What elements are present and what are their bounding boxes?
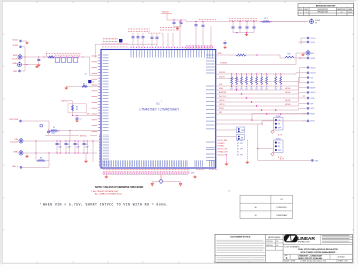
wire vertical x25	[24, 47, 26, 71]
IC U1 LTM4676 uModule outline	[101, 50, 216, 169]
label at x205-214 top	[198, 19, 201, 21]
svg-text:SHEET 1 OF 1: SHEET 1 OF 1	[338, 261, 348, 263]
address text block	[320, 234, 322, 244]
title block frame and approvals	[215, 234, 353, 262]
wire corner at U1 top-left	[95, 44, 157, 58]
svg-text:GND: GND	[13, 151, 18, 153]
svg-text:4B: 4B	[251, 86, 253, 88]
wire stubs x163-173 above U1	[162, 33, 164, 47]
junction top center	[173, 19, 174, 20]
svg-text:4B: 4B	[241, 86, 243, 88]
svg-text:SYNC: SYNC	[219, 108, 225, 110]
labels left of U2 text block	[102, 38, 105, 40]
svg-text:4.5V-26.5V: 4.5V-26.5V	[10, 142, 19, 144]
svg-text:F1: F1	[53, 127, 55, 129]
jumper JP2 RUN1	[274, 140, 284, 153]
svg-text:REV: REV	[305, 9, 308, 11]
svg-text:GND: GND	[13, 63, 18, 65]
wire pin y130 cluster	[216, 129, 236, 131]
svg-text:4B: 4B	[275, 86, 277, 88]
svg-text:4B: 4B	[246, 86, 248, 88]
capacitors C23-C26 top right	[232, 22, 234, 27]
ground arrow under C32	[38, 63, 41, 66]
svg-text:4B 100k: 4B 100k	[285, 100, 291, 102]
svg-text:RUN1: RUN1	[276, 138, 281, 140]
turret small VDD33 top-left	[19, 46, 21, 48]
svg-text:NC_OPT: NC_OPT	[237, 149, 243, 151]
wire RUN0 to JP1	[216, 119, 274, 121]
turret E7 small	[18, 70, 20, 72]
svg-text:NOTE: UNLESS OTHERWISE SPECIFI: NOTE: UNLESS OTHERWISE SPECIFIED	[95, 186, 143, 189]
wire F1 to VIN rail	[58, 130, 101, 132]
svg-text:FSW: FSW	[241, 130, 245, 132]
wire caps bottom join	[174, 26, 181, 28]
svg-text:R9: R9	[83, 84, 85, 86]
ground arrow x86	[85, 160, 88, 163]
capacitor C22 at x203	[202, 27, 204, 48]
ground arrow top right	[245, 33, 248, 36]
svg-text:WP: WP	[311, 103, 314, 105]
capacitor C20	[173, 22, 176, 23]
svg-text:B_TP: B_TP	[280, 159, 284, 161]
wire VIN rail	[23, 140, 101, 142]
wire stub x180 to IC	[179, 22, 181, 47]
junction dots GND rail	[35, 152, 36, 153]
svg-text:PCB DES.: PCB DES.	[267, 241, 274, 243]
svg-text:FB1: FB1	[288, 54, 291, 56]
wire VDD bus jogs	[296, 73, 307, 74]
jumper JP1 RUN0	[274, 118, 284, 131]
flag marker on PVIN wire	[40, 125, 42, 127]
svg-text:PVIN_SNS: PVIN_SNS	[9, 119, 19, 121]
svg-text:VDD25: VDD25	[311, 67, 316, 69]
jumper JP4 small	[237, 135, 245, 141]
svg-text:VDD25: VDD25	[13, 39, 19, 41]
wire riser x93	[92, 141, 94, 160]
turret column feed wires	[302, 113, 307, 115]
svg-text:B_TP: B_TP	[278, 134, 282, 136]
component U2 navy square	[119, 39, 122, 42]
turret small VDD25 top-left	[19, 40, 21, 42]
svg-text:VDD33: VDD33	[311, 73, 316, 75]
dashed vertical no-connect x247	[246, 140, 248, 160]
svg-text:PH: PH	[241, 137, 243, 139]
Linear Technology logo	[284, 235, 298, 243]
svg-text:VOSNS0: VOSNS0	[220, 63, 227, 65]
turret column E10-E23 right edge	[307, 37, 309, 39]
svg-text:1. ALL RESISTORS ARE 0402.: 1. ALL RESISTORS ARE 0402.	[91, 190, 119, 193]
net-tie T1 symbol	[160, 175, 162, 180]
svg-text:22µF: 22µF	[85, 146, 89, 148]
U1 left pin number column text	[92, 55, 98, 57]
labels C23-C26	[228, 17, 231, 19]
svg-text:RUN0: RUN0	[311, 113, 315, 115]
page left edge shade	[0, 0, 1, 270]
U1 right pin name texts (inside)	[206, 54, 215, 56]
net-tie diamond JP1	[271, 130, 274, 133]
wire RUN1 to JP2	[216, 123, 258, 125]
svg-text:DESCRIPTION: DESCRIPTION	[318, 9, 328, 11]
svg-text:11/11: 11/11	[349, 12, 352, 14]
svg-text:TECHNOLOGY: TECHNOLOGY	[298, 242, 311, 244]
svg-text:ALERTB: ALERTB	[219, 91, 227, 94]
wire pin y136 cluster	[216, 136, 236, 138]
inductor FB1	[285, 56, 294, 58]
labels above stubs	[159, 27, 162, 29]
wire E6 stub	[22, 64, 37, 66]
wire top center drop	[167, 14, 186, 22]
turret E4 PVIN_SNS	[19, 120, 21, 122]
ground arrow left end y86	[65, 86, 68, 89]
turret E1 VIN	[19, 138, 23, 143]
capacitor bank second column stubs	[59, 141, 61, 153]
svg-text:VOUT1_CFG: VOUT1_CFG	[218, 149, 228, 151]
svg-text:C1: C1	[58, 144, 60, 146]
frame zone ticks	[36, 1, 38, 3]
U1 bottom pin number rows	[102, 169, 105, 171]
dashed vertical no-connect x227	[226, 154, 228, 162]
svg-text:WITH POWER SYSTEM MANAGEMENT: WITH POWER SYSTEM MANAGEMENT	[300, 251, 336, 254]
capacitor C31 bulk	[47, 131, 50, 132]
svg-text:R8: R8	[76, 106, 78, 108]
revision history table	[298, 4, 354, 16]
wire y86 with series resistor	[66, 85, 82, 87]
turret E6 GND	[18, 62, 22, 67]
svg-text:NP: NP	[76, 109, 78, 111]
svg-text:UP: UP	[278, 146, 280, 148]
wire bracket to E24	[258, 124, 311, 160]
svg-text:GND_S: GND_S	[12, 166, 19, 168]
svg-text:22µF: 22µF	[67, 146, 71, 148]
svg-text:E8: E8	[315, 22, 317, 24]
labels above C14-C16	[127, 28, 130, 30]
svg-text:INTVCC: INTVCC	[80, 135, 88, 137]
resistor R10 small	[236, 54, 246, 56]
resistor R8 vertical	[72, 105, 74, 111]
capacitor C32 on SVIN	[38, 57, 40, 59]
svg-text:LTM4676EY: LTM4676EY	[277, 207, 288, 209]
svg-text:4B: 4B	[236, 86, 238, 88]
svg-text:NC_OPT: NC_OPT	[237, 155, 243, 157]
capacitors C17 C18 above U1	[151, 39, 153, 48]
svg-text:B_TP: B_TP	[278, 157, 282, 159]
optional box around R8	[68, 104, 86, 113]
turret E8 INTVCC big	[310, 19, 314, 24]
resistor R7 horizontal	[262, 21, 270, 23]
ground arrow at GND rail	[26, 155, 29, 158]
ground arrow under C20 C21	[176, 27, 179, 30]
svg-text:GPIO0: GPIO0	[219, 100, 225, 102]
svg-text:VO0S-: VO0S-	[311, 42, 316, 44]
svg-text:100µF: 100µF	[51, 133, 56, 135]
junction JP2 feed	[257, 148, 258, 149]
svg-text:DUAL STEP-DOWN µMODULE REGULAT: DUAL STEP-DOWN µMODULE REGULATOR	[298, 248, 338, 251]
wire GND_S stub	[300, 57, 307, 59]
svg-text:ALL CAPACITORS ARE 0402.: ALL CAPACITORS ARE 0402.	[95, 193, 122, 196]
wire INTVCC horiz	[45, 135, 79, 137]
svg-text:GNDS: GNDS	[311, 58, 315, 60]
wire GND rail	[23, 152, 97, 154]
capacitor C28 right of U1 top	[224, 42, 227, 43]
svg-text:VOUT1_SNS: VOUT1_SNS	[218, 140, 227, 142]
turret E5 SVIN	[18, 54, 22, 59]
wire VOSNS jog	[296, 53, 306, 65]
svg-text:JWS: JWS	[340, 12, 343, 14]
resistor R6	[37, 160, 45, 162]
svg-text:SVIN: SVIN	[13, 55, 18, 57]
labels above SVIN boxes	[45, 52, 48, 54]
U1 top-left pin number text rows	[101, 43, 104, 45]
resistor R3 series	[48, 56, 54, 58]
wire SVIN rail	[22, 56, 83, 58]
svg-text:CUSTOMER NOTICE: CUSTOMER NOTICE	[230, 237, 251, 239]
svg-text:R6: R6	[40, 157, 42, 159]
wire R6 right	[45, 160, 49, 162]
svg-text:SW0: SW0	[218, 53, 222, 55]
svg-text:RUN1: RUN1	[311, 121, 315, 123]
jumper JP3 small	[237, 127, 245, 133]
wire GND turret stub	[303, 52, 306, 54]
ground arrow under C7	[76, 119, 78, 122]
wire FB1 to GND turret	[294, 57, 307, 59]
wire y115.4 to U1	[73, 114, 102, 116]
svg-text:C4: C4	[85, 144, 87, 146]
wire riser E1-E2	[35, 141, 37, 153]
capacitor C19 at x196	[195, 22, 197, 25]
svg-text:NC_OPT: NC_OPT	[237, 143, 243, 145]
svg-text:VIN: VIN	[14, 139, 18, 141]
svg-text:DS: DS	[276, 245, 278, 247]
wire PVIN_SNS	[22, 120, 49, 122]
ground arrow x227	[225, 162, 228, 165]
svg-text:UP: UP	[278, 124, 280, 126]
wire rail to E8	[271, 21, 309, 23]
svg-text:APPROVALS: APPROVALS	[268, 236, 281, 239]
wire R8 to VIN wire	[72, 111, 74, 115]
svg-text:NC_OPT: NC_OPT	[237, 140, 243, 142]
svg-text:LTM4676EY / LTM4676AEY: LTM4676EY / LTM4676AEY	[140, 107, 181, 111]
svg-text:RUN0: RUN0	[276, 116, 281, 118]
svg-text:22µF: 22µF	[76, 146, 80, 148]
capacitor boxes C9 C10 C11 C12 array	[55, 58, 60, 62]
U1 bottom pad dot row	[103, 173, 104, 174]
svg-text:GND: GND	[13, 71, 18, 73]
turret E2 GND	[19, 150, 23, 155]
svg-text:OFF: OFF	[278, 150, 281, 152]
title area text	[283, 244, 352, 246]
resistor bank R11-R20 pull-ups	[231, 73, 232, 74]
svg-text:C8: C8	[92, 82, 94, 84]
wire E7 stub	[21, 70, 25, 72]
junction dots VIN rail	[35, 140, 36, 141]
net-tie diamond JP2	[271, 153, 274, 156]
U1 top pin row (pin names and numbers)	[130, 47, 131, 48]
wire RUN0 turret link	[252, 114, 307, 121]
ground arrow on GND stub	[36, 65, 39, 68]
svg-text:C6: C6	[85, 74, 87, 76]
ground arrow under C28	[224, 46, 226, 49]
wire VDD25 stub	[22, 40, 27, 42]
svg-text:SCL: SCL	[311, 77, 314, 79]
capacitor C21	[180, 22, 183, 23]
wire INTVCC to R8	[69, 101, 73, 105]
svg-text:VOSNS1-: VOSNS1-	[218, 146, 225, 148]
svg-text:VDD33: VDD33	[13, 45, 19, 47]
svg-text:VTRIM1_CFG: VTRIM1_CFG	[218, 152, 229, 154]
wire R6 left	[35, 153, 37, 161]
ground arrow below IC right	[194, 175, 197, 178]
svg-text:LTM4676AEY: LTM4676AEY	[276, 214, 288, 217]
ground arrow below IC left	[105, 175, 108, 178]
turret E3 GND_SNS	[20, 166, 22, 168]
svg-text:WHEN VIN < 5.75V, SHORT INTVCC: WHEN VIN < 5.75V, SHORT INTVCC TO VIN WI…	[43, 203, 168, 207]
svg-text:C2: C2	[67, 144, 69, 146]
capacitor bank C1-C4	[56, 141, 58, 143]
wire bottom bus y174.5	[103, 174, 188, 176]
labels above C17 C18	[147, 32, 150, 34]
capacitor C7 stub	[76, 115, 78, 117]
svg-text:C7: C7	[80, 119, 82, 121]
wire RUN1 turret link	[262, 121, 307, 124]
svg-text:VDD25: VDD25	[219, 77, 225, 79]
wire VOUT0 pin y55	[216, 54, 236, 56]
svg-text:VOSNS1+: VOSNS1+	[218, 143, 225, 145]
svg-text:4B: 4B	[266, 86, 268, 88]
fuse F1	[50, 130, 58, 132]
svg-text:4B: 4B	[280, 86, 282, 88]
capacitors C14 C15 C16 above U1	[132, 38, 134, 47]
svg-text:22µF: 22µF	[58, 146, 62, 148]
wire stub x211	[210, 26, 212, 47]
turret E24	[311, 159, 313, 161]
svg-text:PRODUCTION: PRODUCTION	[318, 12, 328, 14]
svg-text:VDD33: VDD33	[219, 72, 225, 74]
svg-text:4B: 4B	[261, 86, 263, 88]
U1 bottom pin name texts (inside)	[102, 160, 104, 167]
svg-text:SCL: SCL	[219, 84, 223, 86]
wire bus VDD33 y74	[216, 73, 296, 75]
svg-text:4.5V-26.5V: 4.5V-26.5V	[12, 59, 19, 61]
wire gnd stub	[85, 153, 87, 160]
U1 top-right pin number text rows	[185, 45, 188, 47]
ground arrow x247	[246, 161, 249, 164]
footnote star stub	[46, 53, 48, 57]
svg-text:C31: C31	[51, 131, 54, 133]
svg-text:OFF: OFF	[278, 127, 281, 129]
svg-text:4B 100k: 4B 100k	[285, 104, 291, 106]
svg-text:SH_CLK: SH_CLK	[219, 96, 227, 98]
svg-text:VDD33: VDD33	[315, 20, 320, 22]
svg-text:VO0S+: VO0S+	[311, 38, 316, 40]
svg-text:*: *	[40, 202, 41, 206]
svg-text:*: *	[161, 101, 162, 104]
junction dots top right rail	[232, 21, 233, 22]
svg-text:U1: U1	[156, 102, 160, 106]
svg-text:GPIO1: GPIO1	[219, 104, 225, 106]
U1 left pin pad dots lower (VIN/GND pads)	[99, 135, 100, 136]
capacitor C8 navy square	[88, 80, 91, 83]
wire SVIN chain output	[83, 57, 101, 76]
svg-text:4B: 4B	[256, 86, 258, 88]
svg-text:C3: C3	[76, 144, 78, 146]
svg-text:R7 0: R7 0	[264, 18, 268, 20]
wire mid y55-58	[246, 55, 285, 58]
capacitor C7	[76, 118, 79, 119]
U1 left pin stubs upper (SVIN/control pins)	[98, 54, 101, 56]
svg-text:4B 100k: 4B 100k	[285, 92, 291, 94]
wire E3	[22, 166, 49, 168]
svg-text:TITLE: SCHEMATIC: TITLE: SCHEMATIC	[284, 245, 300, 248]
wire top right pins VOUT0S	[301, 38, 307, 44]
wire +VOSNS y64.6	[216, 64, 296, 66]
ground arrow near VDD25	[26, 41, 28, 44]
junction dots SVIN rail	[24, 56, 25, 57]
svg-text:INTVCC: INTVCC	[62, 101, 70, 103]
signal fan wires SCL SDA ALERT GPIO SYNC WP	[216, 78, 307, 86]
wire long rail y21.5	[186, 21, 307, 23]
wire bus VDD25 y78.5	[216, 78, 238, 80]
svg-text:4B 100k: 4B 100k	[285, 88, 291, 90]
wire VDD33 stub	[22, 46, 25, 48]
